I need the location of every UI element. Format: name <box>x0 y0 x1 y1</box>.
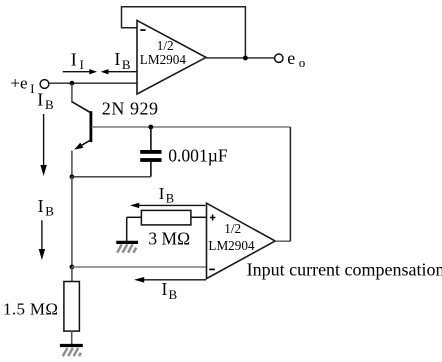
terminal +e_I input <box>40 80 49 89</box>
resistor R1 3 MΩ <box>127 210 207 241</box>
svg-text:B: B <box>169 287 178 302</box>
label I_B (left lower) <box>38 196 55 218</box>
wire: U2 output <box>275 240 290 242</box>
svg-text:0.001µF: 0.001µF <box>168 146 228 166</box>
transistor Q1 (2N 929) <box>72 102 91 150</box>
svg-text:B: B <box>166 191 174 205</box>
current arrow I_B (bottom, leftward) <box>134 277 206 283</box>
current label I_B (bottom) <box>162 279 178 302</box>
label +e_I <box>10 74 34 96</box>
ground (R1) <box>116 242 138 252</box>
svg-text:I: I <box>159 184 165 203</box>
svg-text:+e: +e <box>10 74 27 93</box>
current arrow I_B (left upper, downward) <box>40 114 46 176</box>
label e_o <box>287 48 305 70</box>
wire: U1 feedback loop (output to inverting input) <box>122 7 246 58</box>
current label I_I <box>71 49 84 72</box>
svg-text:e: e <box>287 48 295 68</box>
svg-text:I: I <box>38 196 44 216</box>
svg-text:o: o <box>299 55 306 70</box>
junction: node C <box>70 265 75 270</box>
label I_B (left upper) <box>37 90 54 112</box>
capacitor C1 <box>140 127 161 177</box>
wire: input to U1 <box>49 82 137 84</box>
svg-text:LM2904: LM2904 <box>208 238 255 253</box>
svg-text:I: I <box>162 279 168 299</box>
svg-text:1/2: 1/2 <box>157 38 174 53</box>
junction: node A <box>70 174 75 179</box>
wire: node C to U2 inverting input <box>72 266 207 268</box>
op-amp U2 <box>207 203 276 278</box>
svg-text:I: I <box>114 49 120 69</box>
wire: U1 output <box>206 57 274 59</box>
svg-text:Input current compensation: Input current compensation <box>247 260 442 280</box>
terminal e_o <box>275 54 283 62</box>
svg-text:1/2: 1/2 <box>224 221 241 236</box>
svg-text:I: I <box>80 58 84 72</box>
svg-text:I: I <box>30 82 34 96</box>
svg-text:I: I <box>37 90 43 110</box>
current arrow I_I (rightward) <box>63 69 97 74</box>
ground (R2) <box>60 346 83 357</box>
svg-text:3 MΩ: 3 MΩ <box>148 229 190 249</box>
svg-text:I: I <box>71 49 77 69</box>
wire: Q1 emitter down to node A <box>71 151 73 178</box>
wire: input node down to Q1 collector <box>71 84 73 102</box>
current label I_B (top) <box>114 49 130 72</box>
current arrow I_B (into R1, leftward) <box>130 203 205 208</box>
junction: input node <box>70 81 75 86</box>
junction: U1 output node <box>243 56 248 61</box>
current arrow I_B (top, leftward) <box>101 69 137 74</box>
svg-text:B: B <box>45 204 54 219</box>
svg-text:B: B <box>122 57 131 72</box>
op-amp U1 <box>137 20 206 94</box>
svg-text:LM2904: LM2904 <box>140 52 187 67</box>
svg-text:2N 929: 2N 929 <box>102 99 159 119</box>
wire: node A to capacitor bottom <box>72 176 151 178</box>
current label I_B (above R1) <box>159 184 174 205</box>
svg-text:1.5 MΩ: 1.5 MΩ <box>3 300 58 319</box>
svg-text:B: B <box>45 97 54 112</box>
wire: Q1 base to U2 output riser (node B) <box>92 126 291 128</box>
current arrow I_B (left lower, downward) <box>39 220 45 260</box>
wire: main vertical node A to node C <box>71 177 73 267</box>
resistor R2 1.5 MΩ <box>64 267 80 344</box>
junction: capacitor top node <box>148 125 153 130</box>
wire: U2 output riser to node B <box>289 127 291 241</box>
